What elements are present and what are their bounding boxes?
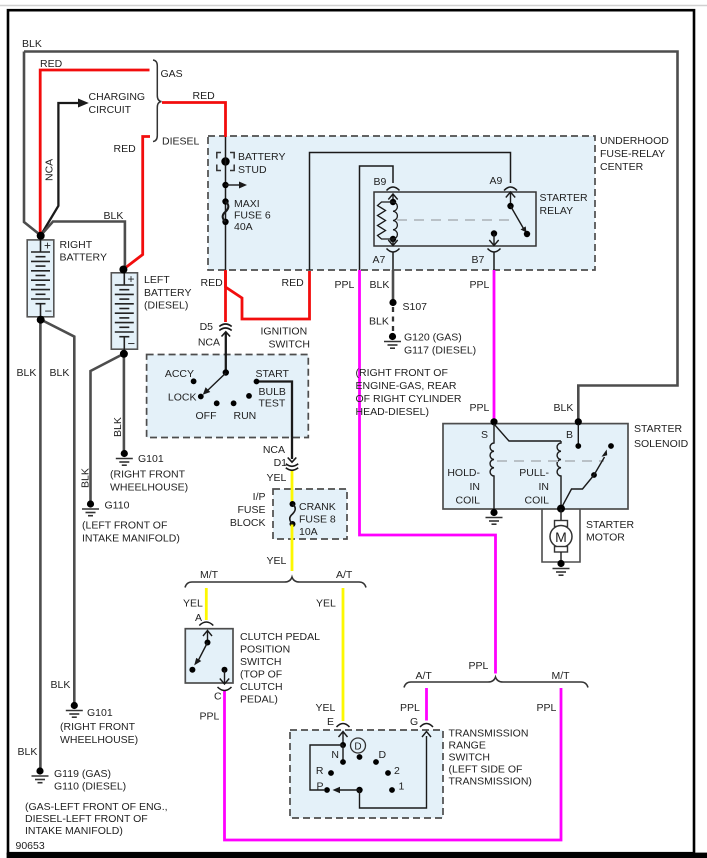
- svg-text:CHARGING: CHARGING: [89, 91, 146, 103]
- svg-text:COIL: COIL: [524, 495, 549, 507]
- wire BLK right battery - to G119: [39, 320, 42, 769]
- svg-text:OF RIGHT CYLINDER: OF RIGHT CYLINDER: [356, 393, 462, 405]
- svg-text:START: START: [256, 368, 290, 380]
- battery stud with bracket: [217, 153, 234, 171]
- svg-text:BATTERY: BATTERY: [238, 151, 285, 163]
- svg-text:INTAKE MANIFOLD): INTAKE MANIFOLD): [82, 533, 180, 545]
- svg-text:WHEELHOUSE): WHEELHOUSE): [60, 734, 138, 746]
- svg-text:D5: D5: [200, 321, 214, 333]
- crank fuse 8 10A: [291, 490, 294, 503]
- svg-text:NCA: NCA: [198, 337, 220, 349]
- svg-text:LEFT: LEFT: [144, 274, 170, 286]
- pull-in coil: [494, 424, 561, 509]
- circled D indicator: [351, 738, 366, 753]
- svg-text:TRANSMISSION): TRANSMISSION): [449, 776, 532, 788]
- svg-text:S: S: [481, 429, 488, 441]
- svg-text:BLK: BLK: [51, 679, 71, 691]
- relay coil: [390, 199, 396, 205]
- wire YEL M/T branch to clutch switch A: [205, 588, 208, 620]
- svg-text:YEL: YEL: [316, 702, 336, 714]
- svg-text:G120 (GAS): G120 (GAS): [404, 332, 462, 344]
- svg-text:C: C: [214, 691, 222, 703]
- svg-text:RUN: RUN: [234, 410, 257, 422]
- svg-text:STARTER: STARTER: [634, 423, 682, 435]
- svg-text:G: G: [410, 716, 418, 728]
- right battery internals: [31, 237, 50, 319]
- relay coil terminal A7 arrow: [388, 239, 397, 246]
- svg-text:YEL: YEL: [183, 598, 203, 610]
- svg-text:STARTER: STARTER: [586, 519, 634, 531]
- svg-text:G110: G110: [105, 500, 130, 512]
- svg-text:BLOCK: BLOCK: [230, 517, 266, 529]
- svg-text:DIESEL-LEFT FRONT OF: DIESEL-LEFT FRONT OF: [25, 813, 148, 825]
- svg-text:FUSE 8: FUSE 8: [299, 514, 336, 526]
- svg-text:FUSE 6: FUSE 6: [234, 210, 271, 222]
- wire PPL brace left branch to trans switch G: [425, 688, 428, 721]
- svg-text:PPL: PPL: [537, 702, 557, 714]
- svg-text:PULL-: PULL-: [519, 467, 549, 479]
- svg-text:RED: RED: [201, 277, 224, 289]
- clutch pedal position switch box: [185, 629, 233, 683]
- svg-text:90653: 90653: [16, 840, 45, 852]
- wire NCA D5 to ignition switch: [225, 332, 227, 373]
- svg-text:(RIGHT FRONT OF: (RIGHT FRONT OF: [356, 367, 448, 379]
- svg-text:M: M: [555, 529, 567, 545]
- svg-text:STARTER: STARTER: [540, 192, 588, 204]
- wire BLK right battery to left battery: [41, 222, 125, 270]
- svg-text:PEDAL): PEDAL): [240, 694, 278, 706]
- connector bracket E (trans): [337, 724, 350, 728]
- connector bracket A9: [504, 187, 517, 191]
- svg-text:BLK: BLK: [50, 367, 70, 379]
- relay coil terminal B9 arrow: [388, 194, 397, 202]
- svg-text:G119 (GAS): G119 (GAS): [54, 768, 111, 780]
- svg-text:PPL: PPL: [200, 711, 220, 723]
- left battery BT2 (diesel): [111, 273, 137, 349]
- svg-text:(LEFT SIDE OF: (LEFT SIDE OF: [449, 764, 523, 776]
- svg-text:(DIESEL): (DIESEL): [144, 300, 188, 312]
- svg-text:GAS: GAS: [161, 68, 183, 80]
- svg-text:SWITCH: SWITCH: [240, 656, 281, 668]
- connector bracket C (clutch): [218, 687, 232, 691]
- svg-text:YEL: YEL: [267, 555, 287, 567]
- svg-text:POSITION: POSITION: [240, 644, 290, 656]
- wire BLK relay A7 to S107: [392, 270, 395, 299]
- svg-text:NCA: NCA: [44, 159, 56, 181]
- solenoid dashed link: [497, 460, 604, 462]
- wire BLK right battery - to G101 lower: [41, 320, 75, 703]
- wire PPL relay B7 to solenoid S: [493, 270, 496, 420]
- ground G110 upper: [87, 500, 94, 507]
- wire BLK dashed S107 to G120: [392, 307, 394, 332]
- ground under hold-in coil: [490, 509, 497, 516]
- ground G101 upper: [121, 450, 128, 457]
- svg-text:R: R: [316, 765, 324, 777]
- node right battery -: [37, 316, 45, 324]
- svg-text:D: D: [379, 749, 387, 761]
- svg-text:PPL: PPL: [470, 402, 490, 414]
- svg-text:FUSE: FUSE: [237, 504, 265, 516]
- underhood fuse-relay center box: [208, 136, 595, 270]
- svg-text:BLK: BLK: [112, 417, 124, 437]
- svg-text:BATTERY: BATTERY: [60, 252, 107, 264]
- svg-text:+: +: [44, 239, 51, 253]
- connector D5: [219, 324, 231, 331]
- svg-text:BLK: BLK: [80, 468, 92, 488]
- svg-text:HEAD-DIESEL): HEAD-DIESEL): [356, 406, 430, 418]
- svg-text:OFF: OFF: [196, 410, 217, 422]
- svg-text:(GAS-LEFT FRONT OF ENG.,: (GAS-LEFT FRONT OF ENG.,: [25, 801, 168, 813]
- ignition switch box: [147, 355, 309, 438]
- wire RED underhood fused output to D5: [224, 270, 227, 322]
- solenoid S node: [490, 418, 497, 425]
- svg-text:A9: A9: [490, 175, 503, 187]
- svg-text:IN: IN: [539, 481, 550, 493]
- relay switch B7 contact: [491, 230, 497, 236]
- svg-text:S107: S107: [403, 301, 428, 313]
- wire BLK left battery - to G110: [91, 354, 124, 501]
- wire BLK left battery - to G101 upper: [123, 354, 126, 450]
- ground G101 lower: [71, 702, 78, 709]
- solenoid output node: [557, 505, 565, 513]
- wire YEL A/T branch to trans range switch E: [342, 588, 345, 721]
- svg-text:PPL: PPL: [469, 660, 489, 672]
- svg-text:2: 2: [394, 765, 400, 777]
- wire RED gas feed from right battery: [40, 70, 149, 235]
- stub A7 to box edge: [392, 252, 394, 270]
- svg-text:PPL: PPL: [470, 279, 490, 291]
- svg-text:WHEELHOUSE): WHEELHOUSE): [110, 482, 188, 494]
- wire RED brace output to underhood battery stud: [162, 103, 226, 138]
- svg-text:TRANSMISSION: TRANSMISSION: [449, 728, 529, 740]
- wire PPL relay B9 to PRNDL brace: [360, 270, 496, 674]
- svg-text:−: −: [128, 336, 136, 351]
- svg-text:I/P: I/P: [253, 491, 266, 503]
- svg-text:IGNITION: IGNITION: [261, 326, 308, 338]
- maxi fuse 6 40A: [222, 198, 228, 204]
- svg-text:BLK: BLK: [22, 38, 42, 50]
- svg-text:G101: G101: [138, 453, 164, 465]
- svg-text:STUD: STUD: [238, 164, 267, 176]
- connector bracket G (trans): [420, 724, 433, 728]
- svg-text:BLK: BLK: [369, 316, 389, 328]
- svg-text:MOTOR: MOTOR: [586, 532, 625, 544]
- svg-text:NCA: NCA: [263, 444, 285, 456]
- wire NCA to charging circuit: [41, 103, 79, 235]
- svg-text:TEST: TEST: [259, 398, 286, 410]
- svg-text:BLK: BLK: [18, 746, 38, 758]
- I/P fuse block box: [273, 489, 347, 539]
- wire YEL D1 to crank fuse: [291, 470, 294, 490]
- svg-text:A/T: A/T: [416, 670, 433, 682]
- svg-text:A7: A7: [373, 254, 386, 266]
- svg-text:(LEFT FRONT OF: (LEFT FRONT OF: [82, 520, 167, 532]
- svg-text:YEL: YEL: [316, 598, 336, 610]
- svg-text:COIL: COIL: [455, 495, 480, 507]
- connector D1: [288, 458, 297, 463]
- wire PPL clutch switch C to bottom run to PPL brace: [225, 688, 562, 840]
- wire NCA ignition START to D1: [257, 382, 293, 460]
- svg-text:CIRCUIT: CIRCUIT: [89, 104, 132, 116]
- svg-text:P: P: [316, 781, 323, 793]
- wire RED loop to relay A9 feed: [226, 271, 310, 319]
- bottom black bar: [7, 853, 707, 858]
- svg-text:RED: RED: [193, 90, 216, 102]
- svg-text:RELAY: RELAY: [540, 205, 574, 217]
- svg-text:E: E: [327, 716, 334, 728]
- svg-text:(TOP OF: (TOP OF: [240, 669, 282, 681]
- ignition switch internals: [223, 369, 229, 375]
- svg-text:G110 (DIESEL): G110 (DIESEL): [54, 781, 126, 793]
- svg-text:BLK: BLK: [554, 402, 574, 414]
- svg-text:INTAKE MANIFOLD): INTAKE MANIFOLD): [25, 825, 123, 837]
- svg-text:UNDERHOOD: UNDERHOOD: [600, 135, 669, 147]
- starter relay box U1: [374, 192, 536, 246]
- svg-text:B7: B7: [472, 254, 485, 266]
- svg-text:MAXI: MAXI: [234, 198, 260, 210]
- wire A9 feed inside box: [310, 153, 511, 271]
- svg-text:D1: D1: [274, 457, 288, 469]
- brace PPL A/T M/T: [404, 677, 588, 688]
- starter motor housing: [542, 510, 580, 563]
- wire battery stud to maxi fuse: [225, 137, 227, 270]
- svg-text:(RIGHT FRONT: (RIGHT FRONT: [110, 469, 186, 481]
- svg-text:YEL: YEL: [267, 472, 287, 484]
- left battery internals: [115, 270, 134, 352]
- wire YEL crank fuse to M/T A/T brace: [291, 538, 294, 571]
- brace M/T A/T: [185, 577, 366, 588]
- svg-text:DIESEL: DIESEL: [162, 136, 200, 148]
- svg-text:BLK: BLK: [370, 279, 390, 291]
- wire BLK top run to starter solenoid B: [24, 52, 678, 421]
- connector bracket A (clutch): [199, 622, 213, 626]
- svg-text:PPL: PPL: [400, 702, 420, 714]
- brace gas/diesel: [153, 60, 162, 142]
- svg-text:M/T: M/T: [200, 569, 219, 581]
- svg-text:FUSE-RELAY: FUSE-RELAY: [600, 148, 665, 160]
- solenoid switch contacts: [577, 424, 579, 444]
- svg-text:A/T: A/T: [336, 569, 353, 581]
- clutch switch internals: [203, 631, 212, 643]
- ground under starter motor: [557, 560, 564, 567]
- svg-text:RIGHT: RIGHT: [60, 239, 93, 251]
- svg-text:SWITCH: SWITCH: [269, 339, 310, 351]
- node right battery +: [37, 232, 45, 240]
- svg-text:G101: G101: [87, 707, 113, 719]
- starter motor M1: [560, 509, 562, 521]
- svg-text:B9: B9: [374, 176, 387, 188]
- svg-text:N: N: [331, 749, 339, 761]
- wire BLK left drop to right battery +: [24, 52, 41, 236]
- svg-text:BLK: BLK: [17, 367, 37, 379]
- relay dashed link: [397, 219, 511, 221]
- svg-text:40A: 40A: [234, 221, 253, 233]
- connector bracket B7: [488, 249, 501, 253]
- svg-text:B: B: [566, 429, 573, 441]
- connector bracket A7: [387, 249, 400, 253]
- ground G120/G117: [389, 333, 396, 340]
- ground G119/G110 lower: [36, 767, 43, 774]
- charging circuit arrow: [78, 99, 89, 108]
- svg-text:ENGINE-GAS, REAR: ENGINE-GAS, REAR: [356, 380, 457, 392]
- svg-text:RANGE: RANGE: [449, 740, 486, 752]
- node left battery -: [120, 350, 128, 358]
- svg-text:D: D: [354, 742, 361, 753]
- wire B9 loop inside box: [360, 166, 394, 270]
- svg-text:HOLD-: HOLD-: [447, 467, 480, 479]
- svg-text:G117 (DIESEL): G117 (DIESEL): [404, 345, 476, 357]
- trans range switch internals: [339, 732, 348, 746]
- svg-text:(RIGHT FRONT: (RIGHT FRONT: [60, 721, 136, 733]
- transmission range switch box: [290, 730, 443, 818]
- svg-text:IN: IN: [470, 481, 481, 493]
- svg-text:RED: RED: [40, 58, 63, 70]
- svg-text:CLUTCH: CLUTCH: [240, 681, 283, 693]
- svg-text:RED: RED: [114, 143, 137, 155]
- svg-text:BULB: BULB: [259, 386, 286, 398]
- wire RED diesel branch to left battery +: [123, 137, 150, 270]
- right battery BT1: [27, 240, 54, 317]
- hold-in coil: [490, 424, 494, 509]
- svg-text:ACCY: ACCY: [165, 368, 194, 380]
- svg-text:A: A: [195, 612, 202, 624]
- starter solenoid box: [443, 424, 628, 509]
- node left battery +: [119, 266, 127, 274]
- svg-text:SOLENOID: SOLENOID: [634, 438, 689, 450]
- solenoid B node: [575, 418, 582, 425]
- relay switch A9 arm: [506, 192, 515, 206]
- svg-text:PPL: PPL: [335, 279, 355, 291]
- svg-text:CENTER: CENTER: [600, 161, 644, 173]
- stub B7 to box edge: [493, 252, 495, 270]
- svg-text:RED: RED: [282, 277, 305, 289]
- svg-text:BATTERY: BATTERY: [144, 287, 191, 299]
- svg-text:CLUTCH PEDAL: CLUTCH PEDAL: [240, 631, 320, 643]
- svg-text:+: +: [128, 272, 135, 286]
- svg-text:SWITCH: SWITCH: [449, 752, 490, 764]
- node with take-off arrow: [222, 182, 228, 188]
- svg-text:CRANK: CRANK: [299, 501, 336, 513]
- svg-text:BLK: BLK: [104, 210, 124, 222]
- svg-text:LOCK: LOCK: [168, 392, 197, 404]
- connector bracket B9: [387, 187, 400, 191]
- svg-text:M/T: M/T: [552, 670, 571, 682]
- decorative top hairline: [0, 5, 707, 7]
- splice S107: [389, 299, 396, 306]
- svg-text:1: 1: [399, 781, 405, 793]
- svg-text:10A: 10A: [299, 526, 318, 538]
- svg-text:−: −: [45, 304, 53, 319]
